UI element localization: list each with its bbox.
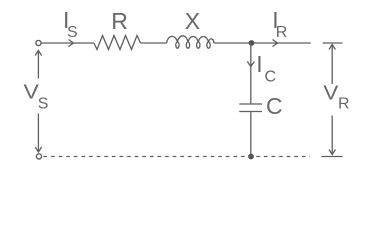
wire: inductor to line end (through node)	[214, 42, 311, 44]
inductor X (coil)	[167, 36, 214, 48]
arrow I_R (current direction, right)	[273, 40, 278, 47]
label I_S	[63, 7, 78, 41]
V_S measure arrow (up head)	[35, 51, 41, 56]
label I_C	[256, 51, 276, 86]
V_S measure arrow (down head)	[37, 114, 39, 153]
wire: capacitor to bottom node	[250, 112, 252, 157]
V_R measure arrow (down head)	[331, 116, 333, 155]
wire: node down to capacitor	[250, 43, 252, 104]
arrow I_S (current direction on top wire)	[69, 40, 74, 47]
label I_R	[272, 7, 287, 41]
V_R bottom reference bar	[321, 156, 342, 158]
svg-text:R: R	[111, 8, 128, 34]
svg-text:V: V	[323, 82, 339, 104]
V_R measure arrow (up head)	[329, 45, 335, 50]
label R	[111, 8, 128, 34]
svg-text:S: S	[67, 24, 78, 41]
svg-text:C: C	[266, 93, 283, 119]
svg-text:I: I	[256, 51, 262, 77]
wire: dashed return line	[44, 156, 311, 158]
svg-text:C: C	[265, 69, 277, 86]
node: junction dot top	[249, 40, 255, 46]
svg-text:R: R	[276, 24, 288, 41]
terminal bottom-left (source -)	[36, 154, 41, 159]
svg-text:X: X	[185, 8, 200, 34]
svg-text:S: S	[38, 96, 49, 113]
wire: top-left terminal to resistor	[42, 42, 94, 44]
label V_R	[323, 82, 349, 112]
node: junction dot bottom	[248, 154, 254, 160]
label V_S	[24, 80, 49, 113]
V_R top reference bar	[323, 42, 343, 44]
arrow I_C (current down into capacitor)	[247, 62, 254, 67]
wire: resistor to inductor	[141, 42, 167, 44]
capacitor C plates	[239, 103, 262, 105]
terminal top-left (source +)	[36, 40, 41, 45]
svg-text:R: R	[338, 96, 350, 113]
label X	[185, 8, 200, 34]
label C	[266, 93, 283, 119]
resistor R	[94, 36, 141, 50]
